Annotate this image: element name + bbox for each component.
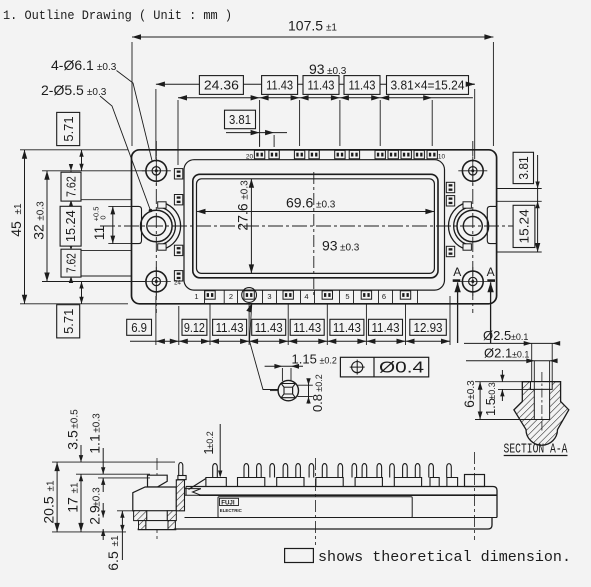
baseplate [185, 517, 498, 519]
svg-text:1. Outline Drawing ( Unit : mm: 1. Outline Drawing ( Unit : mm ) [3, 8, 232, 23]
top boxed dimension chain [178, 97, 473, 99]
svg-text:±0.3: ±0.3 [316, 200, 336, 211]
svg-text:11.43: 11.43 [255, 321, 283, 335]
svg-text:10: 10 [438, 153, 446, 160]
right shelf pins [446, 182, 454, 192]
svg-text:5.71: 5.71 [61, 116, 76, 141]
svg-text:1: 1 [194, 292, 198, 301]
mounting hole bottom-left [146, 271, 167, 292]
svg-text:3.81×4=15.24: 3.81×4=15.24 [391, 79, 465, 93]
svg-text:±1: ±1 [13, 203, 24, 214]
boss centerline [541, 372, 543, 432]
centerline horizontal [100, 225, 528, 227]
boxed 5.71 top [57, 112, 80, 145]
section line A-A [453, 279, 461, 282]
centerline vertical module [313, 172, 315, 297]
lid rectangle [197, 179, 435, 274]
svg-text:7.62: 7.62 [65, 176, 79, 197]
svg-text:11.43: 11.43 [349, 78, 376, 93]
svg-text:3.5: 3.5 [65, 430, 81, 450]
svg-text:±0.3: ±0.3 [36, 201, 47, 221]
case face edge [199, 494, 497, 496]
svg-text:±1: ±1 [110, 535, 121, 546]
svg-text:1.15: 1.15 [292, 352, 317, 367]
svg-text:±0.5: ±0.5 [70, 409, 81, 429]
svg-text:7.62: 7.62 [65, 253, 79, 273]
bottom boxed dimension chain [130, 340, 450, 342]
svg-text:12.93: 12.93 [414, 321, 443, 335]
svg-text:20: 20 [246, 153, 254, 160]
top pin row squares [254, 150, 264, 158]
svg-text:93: 93 [309, 61, 325, 77]
svg-text:32: 32 [31, 224, 47, 240]
svg-text:11.43: 11.43 [216, 321, 244, 335]
svg-text:±0.2: ±0.2 [205, 431, 215, 448]
bottom pin row squares [205, 291, 215, 299]
left shelf pins [174, 169, 182, 179]
nut layer 1 [134, 511, 147, 521]
mounting hole top-left [146, 160, 167, 181]
boxed 5.71 bottom [57, 305, 80, 338]
svg-text:±0.3: ±0.3 [466, 380, 477, 400]
label recess [218, 497, 412, 518]
svg-text:1.1: 1.1 [87, 434, 103, 454]
svg-text:Ø0.4: Ø0.4 [379, 360, 424, 377]
svg-text:9.12: 9.12 [184, 321, 205, 335]
svg-text:±0.3: ±0.3 [97, 62, 117, 73]
svg-text:A: A [487, 265, 495, 279]
tolerance frame dia0.4 [340, 357, 428, 377]
screw terminal left [161, 203, 180, 250]
svg-text:24: 24 [174, 281, 181, 287]
gel surface beak [185, 489, 201, 496]
svg-text:±0.1: ±0.1 [512, 349, 529, 359]
svg-text:2-Ø5.5: 2-Ø5.5 [41, 82, 84, 98]
svg-text:FUJI: FUJI [221, 499, 235, 506]
svg-text:27.6: 27.6 [235, 203, 251, 230]
svg-text:5.71: 5.71 [61, 309, 76, 334]
svg-text:3.81: 3.81 [517, 156, 531, 179]
svg-text:shows theoretical dimension.: shows theoretical dimension. [318, 549, 571, 566]
boxed 15.24 right [513, 205, 535, 247]
pin hole [534, 389, 549, 419]
centerline right terminal column [472, 141, 474, 313]
side view pedestals [206, 478, 226, 487]
leader from circled pin to detail [246, 303, 252, 312]
svg-text:±0.3: ±0.3 [340, 243, 360, 254]
left terminal block: main body [133, 487, 177, 511]
svg-text:±0.2: ±0.2 [319, 356, 336, 366]
mounting hole bottom-right [462, 271, 483, 292]
legend theoretical dimension [285, 549, 314, 563]
svg-text:±1: ±1 [326, 23, 337, 34]
module body outline (top view) [132, 150, 497, 304]
side view case body [186, 487, 497, 518]
circled pin 2 [242, 288, 257, 303]
nut layer 2 [139, 521, 146, 530]
svg-text:11.43: 11.43 [266, 78, 293, 93]
profile slope to first pedestal [189, 479, 206, 490]
boxed 7.62 bottom [61, 249, 81, 277]
svg-text:17: 17 [65, 497, 81, 513]
svg-text:A: A [453, 265, 461, 279]
tall pin left with pedestal [178, 476, 186, 480]
svg-text:11.43: 11.43 [293, 321, 321, 335]
svg-text:11.43: 11.43 [333, 321, 361, 335]
svg-text:11: 11 [91, 226, 107, 241]
right pin pair dims [537, 155, 539, 252]
svg-text:15.24: 15.24 [64, 210, 78, 242]
raised center block [193, 174, 438, 277]
section A-A hatched boss [514, 382, 569, 446]
svg-text:±0.3: ±0.3 [92, 413, 103, 433]
svg-text:20.5: 20.5 [41, 496, 57, 523]
svg-text:±1: ±1 [70, 482, 81, 493]
svg-text:11.43: 11.43 [308, 78, 335, 93]
FUJI logo [220, 498, 239, 505]
svg-text:11.43: 11.43 [372, 321, 400, 335]
svg-text:6: 6 [382, 292, 386, 301]
mounting hole top-right [462, 160, 483, 181]
screw terminal right [448, 203, 467, 250]
svg-text:Ø2.1: Ø2.1 [484, 345, 512, 360]
left pin chain [70, 171, 72, 276]
right terminal block side [465, 475, 485, 487]
svg-text:±1: ±1 [46, 480, 57, 491]
side view pins [213, 464, 218, 478]
svg-text:24.36: 24.36 [204, 78, 239, 93]
svg-text:5: 5 [345, 292, 349, 301]
svg-text:6.5: 6.5 [105, 551, 121, 571]
ext lines bottom chain [155, 296, 157, 345]
svg-text:2: 2 [229, 292, 233, 301]
counterbore [531, 382, 553, 390]
side centerlines [156, 458, 158, 540]
pin shelf boundary [184, 160, 445, 290]
svg-text:4: 4 [304, 292, 308, 301]
left terminal block: screw hat [148, 475, 168, 487]
svg-text:4-Ø6.1: 4-Ø6.1 [51, 57, 94, 73]
svg-text:69.6: 69.6 [286, 195, 313, 211]
boxed 3.81 right [513, 152, 533, 183]
svg-text:107.5: 107.5 [288, 18, 323, 34]
bottom pin slot dividers [204, 290, 206, 304]
svg-text:6.9: 6.9 [131, 321, 147, 335]
svg-text:3: 3 [267, 292, 271, 301]
centerline left terminal column [155, 141, 157, 313]
dim 3.81 box [225, 110, 256, 129]
svg-text:±0.3: ±0.3 [240, 180, 251, 200]
svg-text:±0.2: ±0.2 [314, 374, 324, 391]
boxed 15.24 left [60, 206, 81, 246]
svg-text:15.24: 15.24 [518, 209, 532, 243]
svg-text:93: 93 [322, 238, 338, 254]
svg-text:Ø2.5: Ø2.5 [483, 328, 511, 343]
svg-text:±0.3: ±0.3 [487, 382, 497, 399]
svg-text:6: 6 [461, 400, 477, 408]
svg-text:0: 0 [99, 215, 108, 219]
svg-text:45: 45 [8, 221, 24, 237]
pin cross-section detail [278, 380, 298, 400]
svg-text:±0.3: ±0.3 [87, 87, 107, 98]
svg-text:3.81: 3.81 [229, 112, 251, 127]
case wall hatched [176, 480, 184, 511]
boxed 7.62 top [61, 172, 81, 201]
svg-text:2.9: 2.9 [87, 505, 103, 525]
svg-text:ELECTRIC: ELECTRIC [220, 508, 243, 513]
svg-text:±0.3: ±0.3 [92, 487, 103, 507]
svg-text:±0.1: ±0.1 [511, 332, 528, 342]
